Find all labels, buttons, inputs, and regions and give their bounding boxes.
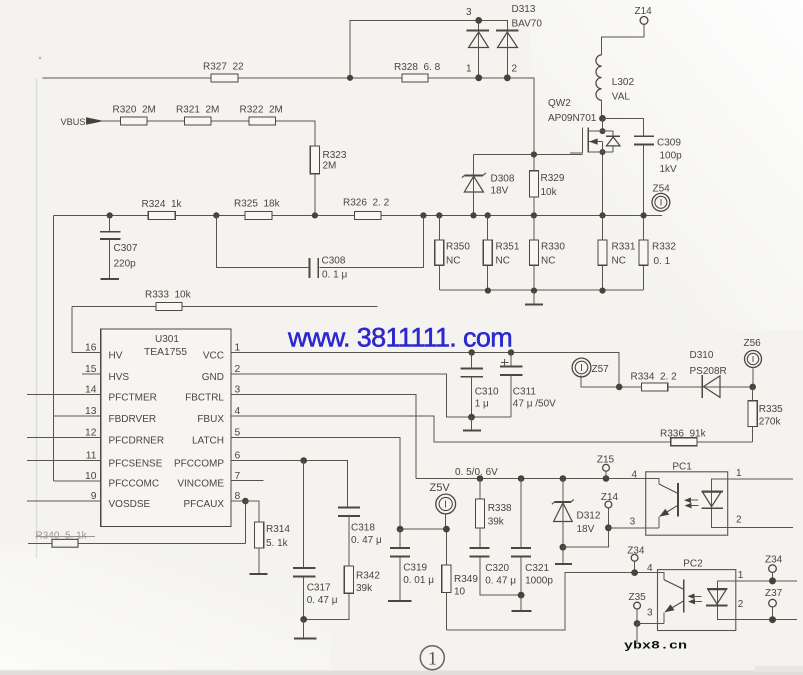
svg-text:2: 2: [736, 515, 742, 526]
capacitor C321: [511, 479, 531, 596]
terminal Z15: [603, 464, 610, 478]
svg-text:2: 2: [738, 599, 744, 610]
svg-text:C321: C321: [525, 563, 549, 574]
node VCC C310: [469, 349, 475, 355]
svg-text:HVS: HVS: [109, 372, 130, 383]
wire pin 13: [54, 415, 101, 417]
wire: PC1 pin2 out: [728, 526, 793, 528]
svg-text:6: 6: [235, 451, 241, 462]
svg-text:R342: R342: [356, 571, 380, 582]
node link row left: [397, 526, 404, 533]
node rail D308: [470, 212, 476, 218]
wire: pin5 LATCH down: [231, 438, 400, 530]
resistor R323 vertical: [310, 146, 319, 215]
wire: drain node to C309: [603, 118, 644, 230]
wire: PC1 pin3: [608, 527, 645, 529]
wire pin 16: [72, 352, 101, 354]
inductor L302: [596, 55, 602, 100]
svg-text:R327 22: R327 22: [203, 62, 244, 73]
svg-text:R324 1k: R324 1k: [142, 199, 183, 210]
svg-text:FBCTRL: FBCTRL: [185, 393, 224, 404]
capacitor C320: [470, 548, 521, 595]
node VCC C311: [508, 349, 514, 355]
svg-text:R351: R351: [496, 242, 520, 253]
terminal Z34 right: [769, 565, 777, 581]
svg-text:39k: 39k: [488, 517, 505, 528]
svg-text:VBUS: VBUS: [61, 117, 86, 127]
svg-text:0. 01 μ: 0. 01 μ: [403, 575, 434, 586]
svg-text:Z57: Z57: [592, 364, 610, 375]
wire: Z57 to R334 row y=386.9: [581, 376, 702, 387]
resistor R314 vertical: [250, 522, 268, 574]
terminal Z56 double circle: [745, 351, 762, 368]
resistor R334: [642, 383, 668, 391]
svg-text:Z56: Z56: [744, 338, 762, 349]
svg-text:D313: D313: [512, 4, 536, 15]
wire: C308 row y=267.5: [216, 215, 423, 267]
svg-text:BAV70: BAV70: [512, 19, 543, 30]
capacitor C319: [388, 529, 412, 601]
svg-text:Z5V: Z5V: [430, 482, 451, 494]
node PC2 pin4: [631, 569, 638, 576]
svg-text:PFCCOMC: PFCCOMC: [109, 479, 160, 490]
svg-text:R320 2M: R320 2M: [113, 105, 156, 116]
node source: [600, 149, 606, 155]
node junction top line x=350: [347, 75, 353, 81]
svg-text:PC2: PC2: [683, 559, 703, 570]
svg-text:D310: D310: [690, 350, 714, 361]
node link row right: [443, 526, 450, 533]
resistor R327: [211, 74, 238, 82]
node pin6 branch: [300, 457, 307, 464]
svg-text:10: 10: [85, 471, 97, 482]
svg-text:11: 11: [86, 451, 97, 462]
wire: pin6 PFCCOMP: [231, 461, 348, 507]
node rail R351: [485, 212, 491, 218]
svg-text:0. 47 μ: 0. 47 μ: [307, 595, 338, 606]
svg-text:VAL: VAL: [612, 92, 631, 103]
node drain: [600, 128, 606, 134]
resistor R328: [402, 74, 428, 82]
svg-text:3: 3: [466, 7, 472, 18]
zener D312: [552, 479, 574, 548]
node PC2 pin3: [634, 620, 641, 627]
svg-text:4: 4: [235, 406, 241, 417]
resistor R333: [156, 303, 182, 311]
scan bottom edge shading: [0, 671, 803, 675]
wire: main top line y=78: [43, 78, 534, 155]
svg-text:9: 9: [91, 491, 97, 502]
wire: PC2 pin3 stub below: [636, 624, 638, 643]
wire: pin2 GND to caps bottom: [231, 374, 511, 417]
resistor R336: [671, 438, 697, 446]
svg-text:PC1: PC1: [672, 462, 692, 473]
svg-text:220p: 220p: [114, 259, 137, 270]
svg-text:AP09N701: AP09N701: [548, 113, 597, 124]
resistor R350 NC: [435, 215, 444, 290]
capacitor C307: [100, 215, 121, 278]
svg-text:18V: 18V: [491, 186, 509, 197]
node rail R330: [531, 212, 537, 218]
op-amp U301 IC box: [101, 329, 231, 527]
capacitor C309: [634, 136, 654, 144]
node L302/C309 junction: [599, 115, 606, 122]
terminal Z5V double circle: [436, 494, 456, 514]
page number circled 1: [420, 646, 444, 670]
svg-text:Z14: Z14: [635, 6, 653, 17]
resistor R331 NC: [598, 215, 607, 290]
scan edge artifact line left: [36, 78, 38, 558]
svg-text:GND: GND: [202, 372, 224, 383]
node rail C308 right riser: [420, 212, 426, 218]
svg-text:R329: R329: [541, 173, 565, 184]
svg-text:C310: C310: [475, 387, 499, 398]
resistor R338 vertical: [475, 479, 484, 548]
svg-text:PFCDRNER: PFCDRNER: [109, 436, 165, 447]
node rail source column: [599, 212, 605, 218]
zener D308: [462, 173, 486, 216]
svg-text:13: 13: [85, 406, 97, 417]
node rail C307: [107, 212, 113, 218]
svg-text:C317: C317: [307, 583, 331, 594]
svg-text:39k: 39k: [356, 583, 373, 594]
svg-text:C307: C307: [114, 243, 138, 254]
svg-text:VOSDSE: VOSDSE: [109, 499, 151, 510]
svg-text:NC: NC: [612, 256, 626, 267]
svg-text:C311: C311: [513, 387, 537, 398]
node C317 R342 bottom: [300, 616, 307, 623]
svg-text:R332: R332: [652, 242, 676, 253]
svg-text:0. 5/0. 6V: 0. 5/0. 6V: [455, 467, 498, 478]
svg-text:5. 1k: 5. 1k: [266, 538, 289, 549]
svg-text:FBUX: FBUX: [197, 414, 224, 425]
transistor QW2 MOSFET: [570, 127, 620, 153]
svg-text:2: 2: [235, 364, 241, 375]
terminal Z14 mid: [605, 501, 612, 528]
svg-text:1: 1: [428, 649, 438, 670]
svg-text:3: 3: [647, 608, 653, 619]
resistor R335 vertical: [748, 387, 757, 442]
resistor R325: [245, 211, 272, 219]
svg-text:HV: HV: [109, 351, 123, 362]
svg-text:16: 16: [85, 343, 97, 354]
wire: PC2 pin3: [637, 623, 657, 625]
ground below D312: [555, 547, 572, 564]
diode D313b: [496, 31, 519, 78]
terminal Z14 top: [635, 6, 653, 25]
node pin8: [242, 498, 249, 505]
optocoupler PC1: [646, 472, 728, 535]
wire pin 9: [27, 500, 101, 502]
wire: pin4 FBUX to R336 row: [231, 416, 753, 442]
wire: gate line y=154.5: [474, 155, 583, 176]
wire: PC2 pin2 out: [736, 619, 797, 621]
node bottom rail R331: [599, 288, 605, 294]
node pin3 D313: [475, 17, 482, 24]
wire: rail left drop to pin10: [53, 215, 55, 481]
svg-text:FBDRVER: FBDRVER: [109, 414, 157, 425]
svg-text:R321 2M: R321 2M: [176, 105, 219, 116]
svg-text:NC: NC: [541, 256, 555, 267]
ground below C317: [294, 619, 317, 638]
resistor R321: [185, 117, 212, 125]
svg-text:15: 15: [85, 364, 97, 375]
wire: R333 row y=306.5: [72, 307, 377, 353]
svg-text:PFCTMER: PFCTMER: [109, 393, 157, 404]
wire: R349 bottom row to PC2 pin4: [446, 573, 657, 630]
svg-text:NC: NC: [446, 256, 460, 267]
wire pin 15 stub: [82, 373, 101, 375]
node pin1 D313: [475, 74, 482, 81]
svg-text:1: 1: [466, 64, 472, 75]
resistor R351 NC: [483, 215, 492, 290]
wire: drain column: [602, 118, 604, 215]
node D312 bottom: [560, 544, 567, 551]
svg-text:D308: D308: [491, 174, 515, 185]
wire: main rail y=215.4: [54, 214, 663, 216]
resistor R340: [28, 539, 245, 547]
ground below C310: [463, 417, 481, 431]
svg-text:18V: 18V: [577, 524, 595, 535]
svg-text:2M: 2M: [323, 161, 337, 172]
resistor R342 vertical: [304, 566, 354, 619]
wire: PC1 pin1 out: [728, 478, 793, 480]
svg-text:PFCAUX: PFCAUX: [183, 499, 224, 510]
node rail C308 left riser: [213, 212, 219, 218]
node rail R350: [436, 212, 442, 218]
svg-text:14: 14: [85, 385, 97, 396]
resistor R326: [355, 211, 382, 219]
node VCC/Z57/R334: [616, 384, 623, 391]
node bottom rail R351: [485, 288, 491, 294]
terminal Z35: [634, 602, 641, 623]
scan speck: [39, 57, 41, 59]
svg-text:PS208R: PS208R: [690, 366, 727, 377]
optocoupler PC2: [658, 570, 736, 631]
svg-text:1: 1: [235, 343, 241, 354]
resistor R349 vertical: [442, 565, 451, 630]
wire: D313 top link y=20: [350, 20, 507, 77]
node C320 C321 bottom: [518, 592, 525, 599]
svg-text:Z37: Z37: [765, 588, 783, 599]
svg-text:3: 3: [630, 517, 636, 528]
node pin2 D313: [504, 74, 511, 81]
svg-text:ybx8.cn: ybx8.cn: [624, 639, 687, 652]
wire: VBUS row y=121: [100, 121, 315, 146]
node C321: [518, 475, 525, 482]
resistor R322: [249, 117, 276, 125]
svg-text:0. 1: 0. 1: [654, 256, 671, 267]
resistor R320: [121, 117, 148, 125]
svg-text:C320: C320: [485, 563, 509, 574]
svg-text:R330: R330: [541, 242, 565, 253]
node R338: [477, 475, 484, 482]
svg-text:PFCSENSE: PFCSENSE: [109, 459, 163, 470]
terminal Z34 left: [631, 554, 638, 572]
node Z56/R335: [749, 384, 756, 391]
svg-text:1 μ: 1 μ: [475, 399, 489, 410]
wire pin7 stub: [231, 480, 263, 482]
capacitor C308: [310, 258, 319, 278]
node PC2 pin1/Z34: [769, 577, 776, 584]
svg-text:4: 4: [647, 563, 653, 574]
wire: D312 bottom to Z14 column: [563, 528, 609, 547]
svg-text:R333 10k: R333 10k: [145, 290, 192, 301]
wire: pin8 to R314: [245, 501, 259, 543]
wire pin 10: [54, 480, 101, 482]
svg-text:R331: R331: [612, 242, 636, 253]
node caps bottom junction: [468, 414, 475, 421]
wire: PC2 pin1 out: [736, 580, 797, 582]
node gate/R329 column: [531, 151, 537, 157]
ground below bottom rail: [525, 291, 543, 305]
resistor R330 NC: [529, 215, 538, 290]
svg-text:0. 47 μ: 0. 47 μ: [351, 535, 382, 546]
wire pin8: [231, 500, 245, 502]
diode D313a: [467, 31, 490, 78]
capacitor C317: [293, 568, 316, 576]
svg-text:C309: C309: [657, 138, 681, 149]
svg-text:C308: C308: [322, 256, 346, 267]
node PC1 pin3: [605, 524, 612, 531]
svg-text:QW2: QW2: [548, 98, 571, 109]
node D312 top: [560, 475, 567, 482]
arrow VBUS: [86, 117, 104, 125]
svg-text:www. 3811111. com: www. 3811111. com: [287, 323, 512, 353]
svg-text:3: 3: [235, 385, 241, 396]
svg-text:R314: R314: [266, 524, 290, 535]
svg-text:R328 6. 8: R328 6. 8: [394, 62, 441, 73]
svg-text:R338: R338: [488, 503, 512, 514]
svg-text:5: 5: [235, 428, 241, 439]
svg-text:4: 4: [632, 470, 638, 481]
terminal Z54 double circle: [652, 193, 670, 211]
svg-text:U301: U301: [155, 334, 179, 345]
svg-text:LATCH: LATCH: [192, 436, 224, 447]
svg-text:C319: C319: [403, 563, 427, 574]
svg-text:R323: R323: [323, 150, 347, 161]
svg-text:47 μ /50V: 47 μ /50V: [513, 399, 556, 410]
wire: pin3 FBCTRL down: [231, 395, 416, 479]
svg-text:R336 91k: R336 91k: [660, 429, 707, 440]
svg-text:D312: D312: [577, 511, 601, 522]
node rail C309 column: [641, 212, 647, 218]
svg-text:NC: NC: [496, 256, 510, 267]
svg-text:TEA1755: TEA1755: [144, 347, 187, 358]
wire: Z56 down to node: [752, 368, 754, 387]
svg-text:100p: 100p: [660, 151, 683, 162]
svg-text:0. 1 μ: 0. 1 μ: [322, 270, 347, 281]
svg-text:R325 18k: R325 18k: [234, 199, 281, 210]
svg-text:R326 2. 2: R326 2. 2: [343, 198, 390, 209]
strike line over R340 label: [36, 536, 96, 538]
svg-text:1: 1: [736, 468, 742, 479]
node rail R323: [312, 212, 318, 218]
svg-text:R349: R349: [454, 574, 478, 585]
wire: C317 column x=303.7: [303, 461, 305, 620]
capacitor C311 polarized: [500, 353, 523, 418]
node Z15: [603, 475, 610, 482]
svg-text:Z35: Z35: [629, 592, 647, 603]
svg-text:Z34: Z34: [765, 555, 783, 566]
terminal Z57 double circle: [572, 358, 591, 377]
terminal Z37: [769, 599, 777, 619]
svg-text:VCC: VCC: [203, 351, 224, 362]
resistor R332: [639, 230, 648, 290]
wire: Z5V down and link row y=529.1: [400, 514, 446, 565]
svg-text:8: 8: [235, 491, 241, 502]
wire: Z14 to L302: [602, 24, 644, 55]
svg-text:270k: 270k: [759, 417, 782, 428]
diode D310: [702, 375, 753, 398]
svg-text:R334 2. 2: R334 2. 2: [631, 372, 678, 383]
svg-text:L302: L302: [612, 77, 635, 88]
svg-text:1000p: 1000p: [525, 576, 553, 587]
svg-text:10k: 10k: [541, 187, 558, 198]
capacitor C310: [461, 353, 483, 418]
wire pin 14: [27, 394, 101, 396]
resistor R324: [148, 211, 175, 219]
svg-text:PFCCOMP: PFCCOMP: [174, 459, 224, 470]
resistor R329 vertical: [529, 155, 538, 216]
wire pin 11: [27, 460, 101, 462]
svg-text:1: 1: [738, 570, 744, 581]
wire: bottom rail y=290: [439, 289, 643, 291]
svg-text:2: 2: [512, 64, 518, 75]
svg-text:12: 12: [85, 428, 97, 439]
svg-text:R335: R335: [759, 404, 783, 415]
node PC2 pin2/Z37: [769, 616, 776, 623]
svg-text:10: 10: [454, 587, 466, 598]
wire: L302 bottom to drain node: [601, 100, 603, 118]
svg-text:0. 47 μ: 0. 47 μ: [485, 576, 516, 587]
svg-text:R350: R350: [446, 242, 470, 253]
svg-text:1kV: 1kV: [660, 164, 678, 175]
capacitor C318: [338, 508, 360, 567]
svg-text:C318: C318: [351, 523, 375, 534]
ground below C321: [511, 595, 531, 611]
wire pin 12: [27, 437, 101, 439]
wire: feedback row y=478.5: [416, 478, 646, 480]
wire: pin1 VCC line y=352.5: [231, 353, 619, 387]
node bottom rail R330: [531, 288, 537, 294]
svg-text:R322 2M: R322 2M: [240, 105, 283, 116]
svg-text:VINCOME: VINCOME: [177, 479, 224, 490]
